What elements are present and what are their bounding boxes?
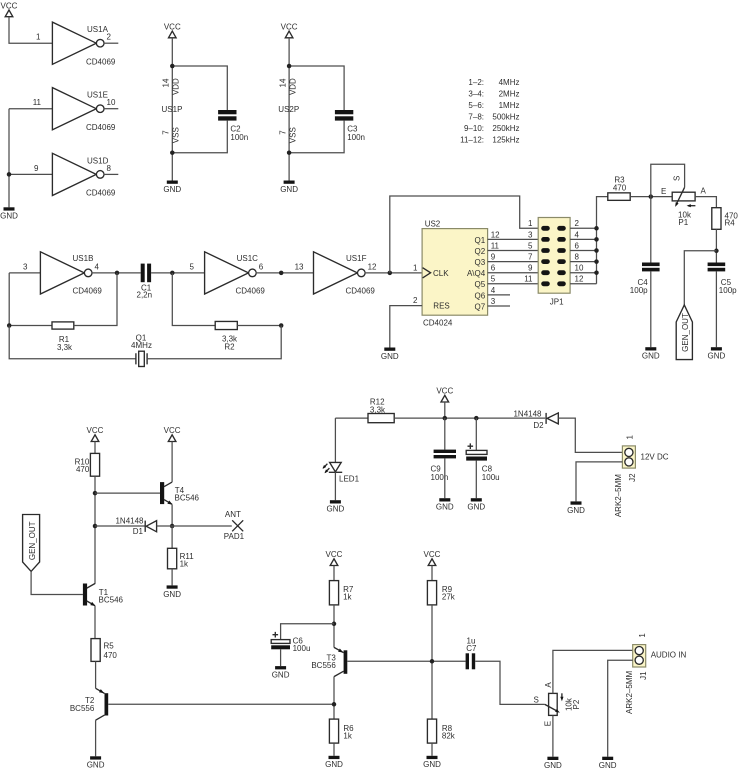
svg-text:1: 1 — [638, 633, 647, 638]
svg-text:S: S — [672, 176, 681, 181]
svg-text:CD4069: CD4069 — [73, 286, 103, 295]
svg-text:GND: GND — [599, 761, 617, 770]
power symbol VCC (top-left) — [1, 1, 18, 16]
wire VSS loop — [289, 121, 344, 153]
wire Q5 to JP1 — [488, 283, 539, 285]
ground — [325, 756, 343, 769]
inverter US1A — [36, 22, 116, 66]
ground — [0, 207, 18, 220]
power symbol VCC (US1P) — [164, 23, 181, 38]
wire — [444, 402, 446, 418]
svg-text:4MHz: 4MHz — [499, 78, 520, 87]
svg-text:GND: GND — [467, 503, 485, 512]
LED LED1 — [323, 462, 360, 483]
svg-text:11: 11 — [524, 275, 533, 284]
svg-text:Q3: Q3 — [475, 258, 486, 267]
IC US2 CD4024 — [422, 220, 488, 328]
power symbol VCC (supply) — [436, 387, 453, 402]
svg-text:100n: 100n — [347, 133, 365, 142]
capacitor C2 — [218, 110, 248, 142]
node junction — [649, 194, 654, 199]
ground — [642, 347, 660, 360]
svg-text:A: A — [701, 187, 707, 196]
svg-text:12: 12 — [368, 262, 377, 271]
wire P1 A to R4 — [695, 197, 716, 208]
net flag GEN_OUT (output) — [676, 305, 692, 360]
svg-text:P2: P2 — [572, 699, 581, 709]
svg-text:R4: R4 — [725, 219, 736, 228]
svg-text:1: 1 — [36, 33, 41, 42]
wire crystal loop left — [9, 326, 136, 359]
resistor R12 — [368, 397, 394, 422]
wire JP1 pin 12 to bus — [570, 283, 596, 285]
inverter US1D — [34, 153, 116, 197]
capacitor C6 (electrolytic) — [271, 632, 310, 653]
svg-text:500kHz: 500kHz — [492, 113, 519, 122]
svg-text:US1F: US1F — [346, 254, 367, 263]
inverter US1E — [33, 88, 116, 132]
svg-text:82k: 82k — [442, 732, 456, 741]
svg-text:10: 10 — [107, 98, 116, 107]
transistor T4 BC546 — [160, 482, 200, 505]
capacitor C8 (electrolytic) — [466, 443, 499, 482]
svg-text:9–10:: 9–10: — [464, 124, 484, 133]
wire — [92, 272, 141, 274]
node junction — [170, 150, 175, 155]
ground — [467, 498, 485, 511]
node junction — [474, 416, 479, 421]
capacitor C3 — [335, 110, 365, 142]
wire left rail — [94, 476, 96, 584]
diode D2 1N4148 — [513, 409, 558, 430]
connector J2 12V DC — [614, 435, 669, 518]
wire R9 to R8 — [431, 605, 433, 719]
wire C6 to ground — [280, 649, 282, 666]
svg-text:CD4024: CD4024 — [423, 318, 453, 327]
wire C4 from node — [650, 197, 652, 263]
ground — [163, 181, 181, 194]
svg-text:ARK2–5MM: ARK2–5MM — [625, 671, 634, 714]
wire — [9, 173, 52, 175]
wire J2 pin2 to ground — [576, 462, 622, 502]
svg-text:US1B: US1B — [73, 254, 94, 263]
resistor R6 — [329, 719, 354, 743]
wire to R12 — [335, 417, 368, 419]
svg-text:3,3k: 3,3k — [370, 405, 386, 414]
resistor R2 — [172, 273, 215, 326]
svg-text:D2: D2 — [533, 421, 544, 430]
svg-text:6: 6 — [491, 264, 496, 273]
wire crystal loop right — [147, 326, 281, 359]
wire flag to T1 base — [31, 571, 83, 594]
svg-text:5: 5 — [491, 275, 496, 284]
svg-text:A: A — [544, 682, 553, 688]
wire to D1 — [95, 525, 145, 527]
wire R3 to node — [630, 196, 672, 198]
wire node to ANT — [172, 525, 232, 527]
wire — [9, 108, 52, 110]
ground — [381, 348, 399, 361]
svg-text:1: 1 — [625, 435, 634, 440]
svg-text:US1E: US1E — [87, 91, 108, 100]
svg-text:12: 12 — [491, 230, 500, 239]
connector J1 AUDIO IN — [625, 633, 686, 714]
wire R5 to T2 — [95, 661, 97, 688]
node junction — [287, 64, 292, 69]
wire R6 to ground — [333, 743, 335, 756]
ground — [436, 498, 454, 511]
wire Q1 to JP1 — [488, 238, 539, 240]
svg-text:CLK: CLK — [433, 269, 449, 278]
wire US2P rail — [288, 38, 290, 181]
svg-text:5: 5 — [190, 262, 195, 271]
potentiometer P2 — [534, 682, 581, 727]
svg-text:3–4:: 3–4: — [468, 90, 484, 99]
wire R12 to D2 — [394, 417, 545, 419]
node junction — [430, 659, 435, 664]
svg-text:1–2:: 1–2: — [468, 78, 484, 87]
resistor R4 — [712, 208, 739, 230]
wire VSS loop — [172, 121, 227, 153]
svg-text:US1A: US1A — [87, 25, 109, 34]
wire base T4 — [95, 492, 160, 494]
svg-text:GND: GND — [87, 761, 105, 770]
svg-text:1k: 1k — [343, 593, 352, 602]
node junction — [170, 524, 175, 529]
svg-text:125kHz: 125kHz — [492, 136, 519, 145]
svg-text:GND: GND — [163, 185, 181, 194]
wire — [256, 272, 314, 274]
svg-text:GND: GND — [327, 505, 345, 514]
wire — [333, 566, 335, 581]
wire T2 collector to ground — [95, 720, 97, 756]
svg-text:13: 13 — [295, 262, 304, 271]
svg-text:1k: 1k — [343, 732, 352, 741]
svg-text:E: E — [661, 187, 666, 196]
svg-text:2MHz: 2MHz — [499, 90, 520, 99]
svg-text:470: 470 — [104, 651, 118, 660]
svg-text:2,2n: 2,2n — [137, 291, 153, 300]
svg-text:10: 10 — [575, 264, 584, 273]
wire pin10 stub — [104, 108, 119, 110]
node junction — [287, 150, 292, 155]
svg-text:1MHz: 1MHz — [499, 101, 520, 110]
node junction bus — [594, 237, 599, 242]
svg-text:R5: R5 — [104, 642, 115, 651]
wire output bus — [597, 197, 608, 284]
wire US1F out to CLK — [365, 272, 423, 274]
svg-text:9: 9 — [34, 164, 39, 173]
node junction — [170, 271, 175, 276]
svg-text:GND: GND — [544, 761, 562, 770]
wire C8 — [475, 418, 477, 450]
svg-text:7–8:: 7–8: — [468, 113, 484, 122]
power symbol VCC (US2P) — [281, 23, 298, 38]
node junction — [170, 64, 175, 69]
pad ANT PAD1 — [224, 510, 245, 541]
svg-text:1: 1 — [528, 219, 533, 228]
svg-text:BC546: BC546 — [99, 595, 124, 604]
wire P2 E to ground — [552, 715, 554, 756]
svg-text:100u: 100u — [482, 473, 500, 482]
svg-text:1k: 1k — [180, 560, 189, 569]
svg-text:Q2: Q2 — [475, 247, 486, 256]
wire JP1 pin 6 to bus — [570, 250, 596, 252]
svg-text:3,3k: 3,3k — [57, 343, 73, 352]
wire — [9, 272, 40, 274]
svg-text:ARK2–5MM: ARK2–5MM — [614, 474, 623, 517]
wire Q6 stub — [488, 294, 510, 296]
svg-text:R2: R2 — [224, 342, 235, 351]
resistor R10 — [75, 453, 100, 476]
ground — [599, 757, 617, 770]
svg-text:GND: GND — [381, 352, 399, 361]
svg-text:4: 4 — [491, 286, 496, 295]
svg-text:CD4069: CD4069 — [86, 58, 116, 67]
svg-text:LED1: LED1 — [339, 474, 360, 483]
capacitor C9 — [431, 450, 457, 482]
wire to C6 — [281, 624, 334, 640]
wire Q4 to JP1 — [488, 272, 539, 274]
svg-text:5–6:: 5–6: — [468, 101, 484, 110]
jumper block JP1 — [538, 218, 570, 307]
wire T4 collector — [171, 442, 173, 483]
frequency table — [460, 78, 519, 145]
svg-text:100p: 100p — [719, 286, 737, 295]
transistor T3 BC556 — [311, 647, 347, 676]
wire T3 base — [347, 660, 465, 662]
net flag GEN_OUT (input) — [23, 515, 40, 572]
node junction bus — [594, 270, 599, 275]
svg-text:11: 11 — [491, 241, 500, 250]
transistor T2 BC556 — [70, 688, 108, 720]
wire JP1 pin 4 to bus — [570, 238, 596, 240]
node junction bus — [594, 226, 599, 231]
power symbol VCC (R10) — [87, 426, 104, 441]
svg-text:1N4148: 1N4148 — [513, 409, 542, 418]
wire US1P rail — [171, 38, 173, 181]
svg-text:US1C: US1C — [237, 254, 259, 263]
ground — [280, 181, 298, 194]
svg-text:3: 3 — [23, 262, 28, 271]
node junction bus — [594, 259, 599, 264]
ground — [708, 347, 726, 360]
ground — [272, 666, 290, 679]
wire R4 to C5 — [715, 229, 717, 262]
svg-text:11: 11 — [33, 98, 42, 107]
resistor R7 — [329, 581, 353, 605]
svg-text:ANT: ANT — [225, 510, 241, 519]
svg-text:8: 8 — [575, 253, 580, 262]
svg-text:BC556: BC556 — [311, 661, 336, 670]
resistor R5 — [91, 639, 117, 662]
pin labels US2P — [278, 78, 299, 143]
wire Q7 stub — [488, 305, 510, 307]
svg-text:A\Q4: A\Q4 — [467, 269, 486, 278]
ground — [87, 756, 105, 769]
wire R2 right — [237, 325, 281, 327]
node junction — [332, 702, 337, 707]
wire P2 A to J1 — [553, 650, 633, 693]
svg-text:9: 9 — [528, 264, 533, 273]
node junction — [7, 323, 12, 328]
svg-text:1N4148: 1N4148 — [115, 517, 144, 526]
svg-text:CD4069: CD4069 — [86, 189, 116, 198]
power symbol VCC (R7) — [326, 550, 343, 565]
ground — [423, 756, 441, 769]
svg-text:GND: GND — [708, 352, 726, 361]
svg-text:2: 2 — [413, 296, 418, 305]
wire C8 to ground — [475, 461, 477, 499]
capacitor C7 — [466, 637, 477, 670]
svg-text:4: 4 — [95, 262, 100, 271]
inverter US1F — [314, 252, 378, 295]
node junction — [388, 271, 393, 276]
wire JP1 pin 10 to bus — [570, 272, 596, 274]
svg-text:GND: GND — [325, 760, 343, 769]
svg-text:AUDIO IN: AUDIO IN — [651, 651, 687, 660]
wire Q2 to JP1 — [488, 250, 539, 252]
power symbol VCC (T4) — [164, 426, 181, 441]
wire loop US1F to JP1 pin1 — [390, 196, 538, 273]
wire T4 emitter — [171, 505, 173, 526]
resistor R1 — [9, 273, 52, 326]
svg-text:J2: J2 — [628, 473, 637, 482]
wire — [9, 17, 52, 44]
svg-text:4: 4 — [575, 230, 580, 239]
node junction — [714, 249, 719, 254]
crystal Q1 4MHz — [131, 333, 152, 366]
wire R7 to T3 — [333, 605, 335, 648]
node junction — [93, 524, 98, 529]
svg-text:470: 470 — [76, 465, 90, 474]
svg-text:4MHz: 4MHz — [131, 341, 152, 350]
resistor R8 — [427, 719, 455, 743]
svg-text:P1: P1 — [678, 218, 688, 227]
node junction — [93, 491, 98, 496]
svg-text:470: 470 — [613, 183, 627, 192]
svg-text:1: 1 — [413, 264, 418, 273]
svg-text:J1: J1 — [639, 671, 648, 680]
inverter US1B — [23, 252, 102, 295]
wire T3 collector — [333, 677, 335, 720]
resistor R9 — [427, 581, 455, 605]
svg-text:GND: GND — [436, 503, 454, 512]
wire pin8 stub — [104, 173, 119, 175]
svg-text:14: 14 — [278, 78, 287, 87]
svg-text:5: 5 — [528, 241, 533, 250]
ground — [567, 501, 585, 514]
wire left rail — [8, 109, 10, 208]
wire C9 to ground — [444, 458, 446, 498]
svg-text:GND: GND — [272, 671, 290, 680]
node junction — [332, 622, 337, 627]
wire LED1 to ground — [334, 472, 336, 500]
svg-text:VSS: VSS — [172, 127, 181, 143]
wire C9 — [444, 418, 446, 450]
wire — [94, 442, 96, 454]
svg-text:US1P: US1P — [162, 105, 183, 114]
svg-text:CD4069: CD4069 — [236, 286, 266, 295]
svg-text:RES: RES — [433, 302, 449, 311]
svg-text:C7: C7 — [466, 644, 477, 653]
wire LED1 anode — [334, 418, 336, 462]
diode D1 1N4148 — [115, 517, 156, 536]
svg-text:Q7: Q7 — [475, 302, 486, 311]
wire — [151, 272, 205, 274]
wire D1 to node — [157, 525, 173, 527]
wire — [431, 566, 433, 581]
svg-text:100n: 100n — [431, 473, 449, 482]
svg-text:Q5: Q5 — [475, 280, 486, 289]
node junction — [115, 271, 120, 276]
wire VDD loop — [289, 66, 344, 110]
node junction — [7, 172, 12, 177]
svg-text:Q1: Q1 — [475, 236, 486, 245]
ground — [544, 757, 562, 770]
svg-text:2: 2 — [575, 219, 580, 228]
svg-text:27k: 27k — [442, 593, 456, 602]
wire R8 to ground — [431, 743, 433, 756]
svg-text:100n: 100n — [230, 133, 248, 142]
svg-text:100p: 100p — [630, 286, 648, 295]
svg-text:S: S — [534, 695, 539, 704]
capacitor C1 — [137, 264, 153, 300]
potentiometer P1 — [661, 176, 706, 227]
wire T2 base — [108, 703, 334, 705]
wire to R11 — [171, 526, 173, 548]
pin labels US1P — [162, 78, 183, 143]
svg-text:7: 7 — [162, 130, 171, 135]
inverter US1C — [190, 252, 266, 295]
wire D2 to J2 pin1 — [558, 418, 622, 452]
svg-text:US2: US2 — [425, 220, 441, 229]
transistor T1 BC546 — [83, 584, 124, 607]
svg-text:3: 3 — [528, 230, 533, 239]
svg-text:JP1: JP1 — [550, 297, 564, 306]
svg-text:CD4069: CD4069 — [86, 123, 116, 132]
svg-text:GND: GND — [423, 760, 441, 769]
wire VDD loop — [172, 66, 227, 110]
svg-text:GND: GND — [280, 185, 298, 194]
svg-text:12: 12 — [575, 275, 584, 284]
wire to GEN_OUT flag — [684, 251, 716, 305]
capacitor C5 — [708, 263, 738, 295]
svg-text:11–12:: 11–12: — [460, 136, 484, 145]
svg-text:3: 3 — [491, 297, 496, 306]
svg-text:GND: GND — [163, 590, 181, 599]
wire T1 emitter to R5 — [94, 606, 96, 639]
svg-text:7: 7 — [528, 253, 533, 262]
svg-text:US2P: US2P — [278, 105, 299, 114]
svg-text:VDD: VDD — [289, 78, 298, 95]
svg-text:7: 7 — [278, 130, 287, 135]
svg-text:6: 6 — [575, 241, 580, 250]
svg-text:VSS: VSS — [289, 127, 298, 143]
svg-text:9: 9 — [491, 253, 496, 262]
svg-text:GND: GND — [567, 506, 585, 515]
wire P1 wiper S — [651, 164, 685, 196]
node junction — [279, 271, 284, 276]
node junction bus — [594, 248, 599, 253]
svg-text:D1: D1 — [133, 527, 144, 536]
wire C4 to ground — [650, 272, 652, 348]
wire J1 pin2 to ground — [608, 660, 633, 757]
resistor R11 — [168, 548, 195, 569]
svg-text:BC556: BC556 — [70, 704, 95, 713]
svg-text:GEN_OUT: GEN_OUT — [28, 521, 37, 560]
svg-text:E: E — [544, 721, 553, 726]
